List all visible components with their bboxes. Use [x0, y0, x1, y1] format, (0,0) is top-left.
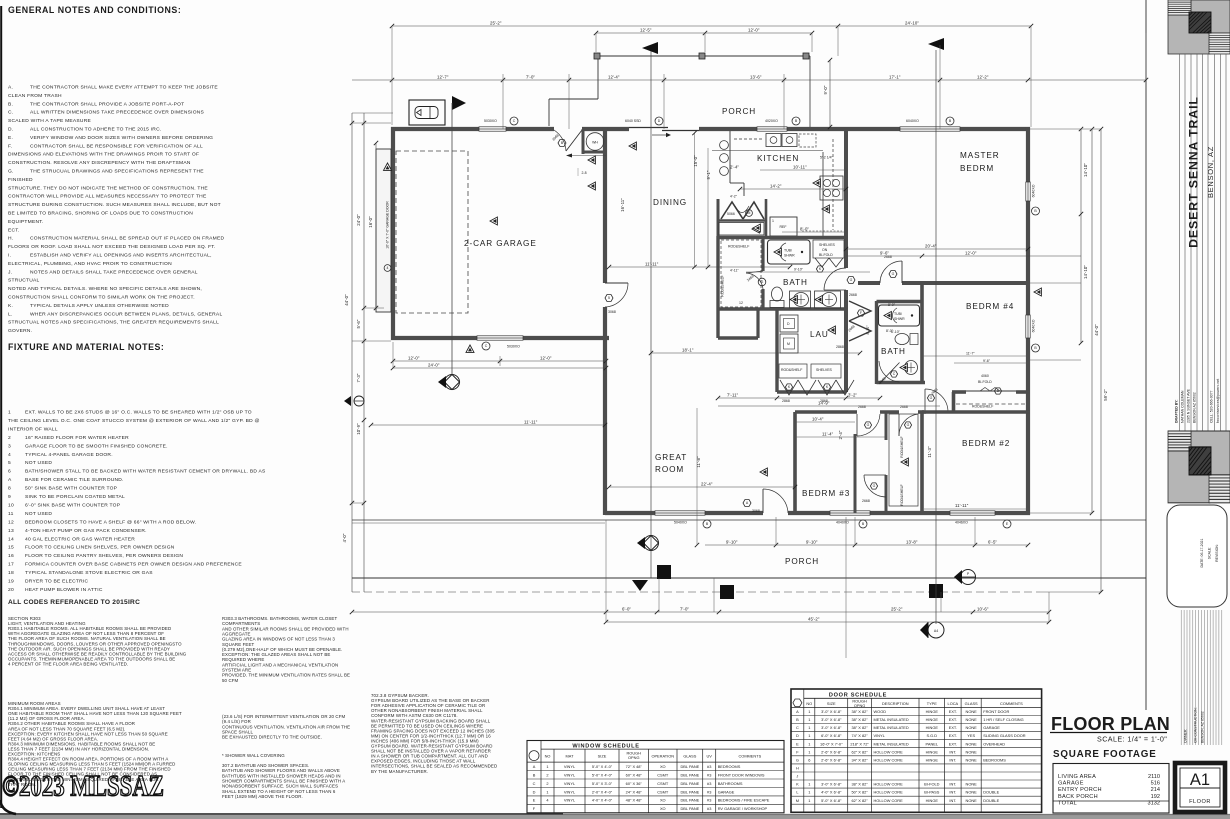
svg-text:INT.: INT. [949, 790, 956, 795]
FLOOR PLAN title [1050, 714, 1170, 744]
dim row y612 [350, 607, 1051, 615]
sliding door 6040 SSD [629, 128, 699, 138]
svg-text:10'-11": 10'-11" [793, 165, 807, 170]
svg-text:INT.: INT. [949, 798, 956, 803]
left extension stubs [352, 113, 393, 503]
dim bedrm3 [795, 417, 886, 438]
shelves closet bifold W [815, 258, 843, 267]
svg-text:34" X 82": 34" X 82" [852, 757, 869, 762]
svg-text:#3: #3 [707, 789, 711, 794]
svg-text:2'-0" X 4'-0": 2'-0" X 4'-0" [592, 789, 613, 794]
svg-text:6040XO: 6040XO [1032, 184, 1036, 197]
svg-text:12'-0": 12'-0" [748, 28, 760, 33]
svg-text:25'-2": 25'-2" [490, 21, 502, 26]
svg-text:VERIFY WINDOW AND DOOR SIZES W: VERIFY WINDOW AND DOOR SIZES WITH OWNERS… [30, 135, 213, 141]
svg-text:DBL PANE: DBL PANE [680, 789, 699, 794]
toilet bath2 [895, 334, 918, 345]
svg-text:ALL CODES REFERANCED TO 2015IR: ALL CODES REFERANCED TO 2015IRC [8, 599, 140, 606]
svg-text:BI-FOLD: BI-FOLD [819, 253, 833, 257]
svg-text:38" X 82": 38" X 82" [852, 709, 869, 714]
svg-text:13: 13 [8, 528, 14, 534]
code notes column 2 [222, 616, 350, 683]
svg-text:SHWR: SHWR [784, 254, 795, 258]
svg-text:FINISHED: FINISHED [8, 177, 33, 183]
svg-text:13'-8": 13'-8" [906, 540, 918, 545]
svg-text:16'-0" X 7'-0": 16'-0" X 7'-0" [820, 741, 843, 746]
svg-text:10'-4": 10'-4" [812, 417, 824, 422]
svg-text:BY THE MANUFACTURER.: BY THE MANUFACTURER. [371, 769, 428, 774]
garage opener legend box [409, 100, 445, 125]
svg-text:DBL PANE: DBL PANE [680, 798, 699, 803]
sheet inner frame line [1145, 0, 1147, 710]
sheet left border [0, 6, 2, 808]
svg-text:FLOOR: FLOOR [1189, 799, 1211, 805]
svg-text:HINGE: HINGE [926, 709, 939, 714]
svg-text:4020XO: 4020XO [765, 119, 778, 123]
svg-text:72" X 48": 72" X 48" [626, 764, 643, 769]
svg-text:EXT.: EXT. [949, 717, 957, 722]
dim stubs y545 [697, 408, 975, 545]
window 5040XO bottom wall [655, 511, 705, 515]
svg-text:LIVING AREA: LIVING AREA [1058, 774, 1096, 780]
svg-text:EXT. WALLS TO BE 2X6 STUDS @: EXT. WALLS TO BE 2X6 STUDS @ 16" O.C. WA… [25, 410, 252, 416]
svg-text:DATE: 06-17-2021: DATE: 06-17-2021 [1200, 538, 1204, 567]
door garage to great room [605, 283, 628, 307]
svg-text:PROVIDED. THE MINIMUM VENTILAT: PROVIDED. THE MINIMUM VENTILATION RATES … [222, 673, 350, 678]
porch beam drop line [809, 56, 811, 127]
master door [880, 261, 902, 283]
svg-text:SHELVES: SHELVES [816, 368, 833, 372]
svg-text:DRYER TO BE ELECTRIC: DRYER TO BE ELECTRIC [25, 579, 88, 585]
washer [780, 334, 798, 353]
svg-text:5'-0" X 4'-0": 5'-0" X 4'-0" [592, 772, 613, 777]
code notes column 1 [8, 616, 187, 666]
svg-text:SQUARE FOOTAGE: SQUARE FOOTAGE [1053, 749, 1157, 760]
svg-text:6'-0": 6'-0" [622, 607, 631, 612]
svg-text:H: H [796, 766, 799, 771]
svg-text:A: A [796, 709, 799, 714]
svg-text:9'-10": 9'-10" [794, 268, 804, 272]
flag triangle at opener box [452, 96, 466, 110]
svg-text:2: 2 [8, 435, 11, 441]
svg-text:14: 14 [8, 536, 14, 542]
right extension stubs [1030, 129, 1101, 592]
svg-text:516: 516 [1151, 781, 1160, 787]
svg-text:BENSON, AZ 85602: BENSON, AZ 85602 [1201, 711, 1205, 743]
svg-text:22'-4": 22'-4" [701, 482, 713, 487]
svg-text:3'-0" X 6'-8": 3'-0" X 6'-8" [821, 782, 842, 787]
svg-text:2285 N SUNSET AVE: 2285 N SUNSET AVE [1187, 388, 1191, 423]
shelves bifold closet [813, 240, 844, 258]
svg-text:ROD&SHELF: ROD&SHELF [900, 436, 904, 457]
svg-text:2110: 2110 [1148, 774, 1160, 780]
stove [820, 176, 843, 200]
svg-text:59'-2": 59'-2" [1103, 389, 1108, 401]
svg-text:INTERIOR OF WALL: INTERIOR OF WALL [8, 426, 58, 432]
svg-text:1: 1 [808, 782, 810, 787]
dim kitchen 14-2 [738, 184, 848, 192]
svg-text:HINGE: HINGE [926, 798, 939, 803]
tub shower bath1 [768, 240, 811, 264]
svg-text:©2023 MLSSAZ: ©2023 MLSSAZ [2, 768, 164, 802]
bar stools dining side [720, 141, 729, 176]
lau closet bifolds [780, 380, 854, 395]
logo top right [1168, 0, 1230, 54]
svg-text:20: 20 [8, 587, 14, 593]
svg-text:OWNER:: OWNER: [1184, 729, 1188, 743]
svg-text:GLASS: GLASS [683, 754, 696, 759]
extension lines top [392, 27, 1146, 129]
svg-text:DBL PANE: DBL PANE [680, 806, 699, 811]
svg-text:HOLLOW CORE: HOLLOW CORE [874, 798, 904, 803]
svg-text:VINYL: VINYL [564, 798, 576, 803]
svg-text:16: 16 [8, 553, 14, 559]
svg-text:NOTES AND DETAILS SHALL TAKE P: NOTES AND DETAILS SHALL TAKE PRECEDENCE … [30, 269, 198, 275]
svg-text:J.: J. [8, 269, 12, 275]
dim line top 25-2 / 24-10 [390, 21, 1033, 29]
svg-text:38" X 82": 38" X 82" [852, 782, 869, 787]
svg-text:COMMENTS: COMMENTS [738, 754, 761, 759]
svg-text:2: 2 [546, 781, 548, 786]
svg-text:11: 11 [8, 511, 14, 517]
svg-text:5'-0" X 6'-8": 5'-0" X 6'-8" [821, 798, 842, 803]
svg-text:BEDRM #2: BEDRM #2 [962, 439, 1010, 448]
water heater closet [583, 129, 605, 154]
svg-text:#3: #3 [707, 772, 711, 777]
door bedrm2 hall [899, 414, 918, 436]
svg-text:4'-0": 4'-0" [342, 533, 347, 542]
svg-text:#3: #3 [707, 781, 711, 786]
svg-text:F: F [860, 311, 862, 315]
svg-text:BATHROOMS: BATHROOMS [718, 781, 743, 786]
svg-text:10'-6": 10'-6" [977, 607, 989, 612]
svg-text:1: 1 [546, 789, 548, 794]
svg-text:J: J [796, 774, 798, 779]
svg-text:11'-11": 11'-11" [955, 503, 969, 508]
svg-text:8'-0": 8'-0" [888, 303, 896, 307]
window 6040XO east wall lower [1026, 315, 1030, 338]
refrigerator [770, 217, 842, 236]
svg-text:18'-1": 18'-1" [682, 348, 694, 353]
porch post top 1 [594, 53, 600, 59]
general notes paragraph A-L [8, 85, 224, 335]
dim master 20-4 [844, 244, 1030, 252]
wall: garage right / house west [603, 127, 607, 515]
bottom porch roof line [352, 578, 1146, 592]
svg-text:PORCH: PORCH [722, 107, 756, 116]
svg-text:OVERHEAD: OVERHEAD [983, 741, 1005, 746]
svg-text:2668: 2668 [849, 293, 857, 297]
svg-text:5040XO: 5040XO [674, 521, 687, 525]
fixture notes list 1-20 [8, 410, 266, 593]
svg-text:THE STRUCUAL DRAWINGS AND SPEC: THE STRUCUAL DRAWINGS AND SPECIFICATIONS… [30, 169, 204, 175]
svg-text:CONSTRUCTION SHALL CONFORM TO: CONSTRUCTION SHALL CONFORM TO SIMILAR WO… [8, 295, 195, 301]
svg-text:CSMT: CSMT [657, 772, 669, 777]
porch post bottom 1 [657, 565, 671, 579]
svg-text:OPNG: OPNG [854, 703, 865, 708]
svg-text:NONE: NONE [966, 798, 978, 803]
svg-text:12'-7": 12'-7" [437, 75, 449, 80]
svg-text:UV: UV [706, 754, 712, 759]
svg-text:HINGE: HINGE [926, 757, 939, 762]
entry recess outline [549, 58, 598, 126]
svg-text:H.: H. [8, 236, 13, 242]
code notes column 3 [371, 693, 497, 774]
wall: house east [1026, 127, 1030, 515]
svg-text:DESCRIPTION: DESCRIPTION [882, 701, 909, 706]
svg-text:5'-2 1/4": 5'-2 1/4" [820, 156, 834, 160]
svg-text:WH: WH [592, 141, 598, 145]
svg-text:DBL PANE: DBL PANE [680, 781, 699, 786]
svg-text:FLOOR PLAN: FLOOR PLAN [1051, 714, 1170, 734]
svg-text:OPERATION: OPERATION [651, 754, 674, 759]
hose bib marker left porch [344, 396, 364, 406]
dim hall rows [716, 393, 940, 407]
svg-text:5'-6": 5'-6" [356, 319, 361, 328]
svg-text:44'-0": 44'-0" [1094, 324, 1099, 336]
svg-text:BI-PASS: BI-PASS [924, 790, 939, 795]
svg-text:DRAFTED BY:: DRAFTED BY: [1175, 400, 1179, 423]
svg-text:45'-2": 45'-2" [808, 617, 820, 622]
svg-text:S.G.D: S.G.D [927, 733, 938, 738]
svg-text:7'-0": 7'-0" [526, 75, 535, 80]
svg-text:ROOM: ROOM [655, 465, 684, 474]
dishwasher [799, 134, 816, 147]
small dims bath [888, 303, 901, 334]
svg-text:ENTRY PORCH: ENTRY PORCH [1058, 787, 1102, 793]
svg-text:4'-0" X 6'-8": 4'-0" X 6'-8" [821, 790, 842, 795]
svg-text:2-8: 2-8 [581, 171, 586, 175]
logo middle right [1168, 431, 1230, 503]
closet door bath1 [746, 271, 763, 289]
svg-text:74" X 82": 74" X 82" [852, 733, 869, 738]
svg-text:G: G [907, 423, 910, 427]
svg-text:BACK PORCH: BACK PORCH [1058, 794, 1098, 800]
door 3068 bottom wall [763, 489, 788, 513]
svg-text:1: 1 [808, 709, 810, 714]
bedrm4 west wall [920, 283, 924, 384]
keynote diamond patio [438, 375, 460, 390]
svg-text:INT.: INT. [949, 782, 956, 787]
svg-text:D: D [533, 789, 536, 794]
svg-text:5030XO: 5030XO [484, 119, 497, 123]
svg-text:MASTER: MASTER [960, 151, 1000, 160]
svg-text:HINGE: HINGE [926, 717, 939, 722]
wall: garage top [391, 127, 629, 131]
svg-text:THE CEILING LEVEL O.C. ONE C: THE CEILING LEVEL O.C. ONE COAT STUCCO S… [8, 418, 260, 424]
closet rodshelf boxes bedrm23 [889, 414, 918, 506]
svg-text:4'-11": 4'-11" [730, 269, 739, 273]
svg-text:2-CAR GARAGE: 2-CAR GARAGE [464, 239, 537, 248]
svg-text:9'-1": 9'-1" [706, 170, 711, 179]
svg-text:4'-0" X 4'-0": 4'-0" X 4'-0" [592, 798, 613, 803]
svg-text:44'-0": 44'-0" [344, 294, 349, 306]
svg-text:5'-0" X 3'-0": 5'-0" X 3'-0" [592, 781, 613, 786]
svg-text:2: 2 [546, 772, 548, 777]
svg-text:15: 15 [8, 545, 14, 551]
svg-text:GARAGE FLOOR TO BE SMOOTH FINI: GARAGE FLOOR TO BE SMOOTH FINISHED CONCR… [25, 443, 168, 449]
svg-text:INT.: INT. [949, 749, 956, 754]
svg-text:K.: K. [8, 303, 13, 309]
svg-text:THE CONTRACTOR SHALL PROVIDE A: THE CONTRACTOR SHALL PROVIDE A JOBSITE P… [30, 101, 184, 107]
svg-text:11'-11": 11'-11" [524, 420, 538, 425]
svg-text:ROD&SHELF: ROD&SHELF [972, 405, 993, 409]
svg-text:60" X 36": 60" X 36" [626, 781, 643, 786]
svg-text:4060: 4060 [981, 374, 989, 378]
svg-text:19: 19 [8, 579, 14, 585]
sheet bottom shadow band [0, 800, 1230, 819]
svg-text:G: G [796, 757, 799, 762]
svg-text:OPNG: OPNG [628, 755, 639, 760]
porch post top 3 [803, 53, 809, 59]
svg-text:ESTABLISH AND VERIFY ALL OPENI: ESTABLISH AND VERIFY ALL OPENINGS AND IN… [30, 253, 212, 259]
svg-text:HEAT PUMP BLOWER IN ATTIC: HEAT PUMP BLOWER IN ATTIC [25, 587, 103, 593]
porch post bottom 2 [720, 585, 734, 599]
dim patio 11-11 [369, 420, 607, 428]
svg-text:G: G [761, 280, 764, 284]
svg-text:16'-11": 16'-11" [620, 198, 625, 212]
svg-text:FLOOR TO CEILING LINEN SHELVE: FLOOR TO CEILING LINEN SHELVES, PER OWNE… [25, 545, 175, 551]
svg-text:24'-0": 24'-0" [428, 363, 440, 368]
svg-text:60" X 48": 60" X 48" [626, 772, 643, 777]
svg-text:4040XO: 4040XO [836, 521, 849, 525]
svg-text:A4: A4 [934, 629, 938, 633]
svg-text:8: 8 [8, 486, 11, 492]
svg-text:D: D [796, 733, 799, 738]
vanity sinks bath1 [790, 291, 811, 308]
svg-text:M: M [787, 342, 790, 346]
svg-text:TYPICAL DETAILS APPLY UNLESS O: TYPICAL DETAILS APPLY UNLESS OTHERWISE N… [30, 303, 169, 309]
svg-text:XO: XO [660, 806, 666, 811]
misc keynote triangles [629, 142, 636, 150]
svg-text:38" X 82": 38" X 82" [852, 725, 869, 730]
dim great room 18-1 [649, 348, 862, 356]
bath2 walls [877, 301, 926, 384]
svg-text:2668: 2668 [884, 255, 892, 259]
svg-text:ROD&SHELF: ROD&SHELF [728, 245, 749, 249]
svg-text:NOTED AND TYPICAL DETAILS. WH: NOTED AND TYPICAL DETAILS. WHERE NO SPEC… [8, 286, 202, 292]
kitchen top counter [712, 150, 823, 152]
svg-text:FLOORS OR ROOF. LOAD SHALL NO: FLOORS OR ROOF. LOAD SHALL NOT EXCEED TH… [8, 244, 216, 250]
owner block [1181, 610, 1222, 745]
svg-text:6040XO: 6040XO [1032, 319, 1036, 332]
svg-text:5: 5 [608, 296, 610, 300]
svg-text:METAL INSULATED: METAL INSULATED [874, 725, 909, 730]
bedrm2 top wall [922, 410, 1030, 414]
svg-text:BEDROOMS: BEDROOMS [718, 764, 741, 769]
dim line 12-5 / 12-0 [594, 28, 814, 36]
bedrm3 west wall [793, 412, 797, 513]
svg-text:ROD&SHELF: ROD&SHELF [900, 484, 904, 505]
svg-text:C: C [796, 725, 799, 730]
left dim line 44-0 [342, 113, 354, 592]
bedrm4 door [925, 389, 948, 414]
svg-text:SCALE:: SCALE: [1208, 547, 1212, 559]
svg-text:WHER ANY DISCREPANCIES OCCUR B: WHER ANY DISCREPANCIES OCCUR BETWEEN PLA… [30, 311, 222, 317]
svg-text:HOLLOW CORE: HOLLOW CORE [874, 782, 904, 787]
svg-text:VINYL: VINYL [564, 772, 576, 777]
svg-text:1: 1 [808, 717, 810, 722]
svg-text:HINGE: HINGE [926, 725, 939, 730]
right dim 59-2 [1099, 127, 1108, 594]
keynote diamond porch [637, 536, 659, 551]
dim master 9-6 12-0 [846, 251, 1081, 259]
svg-text:1: 1 [808, 798, 810, 803]
svg-text:50" X 82": 50" X 82" [852, 790, 869, 795]
svg-text:#3: #3 [707, 806, 711, 811]
svg-text:218" X 72": 218" X 72" [850, 741, 869, 746]
hall corridor linen closet bifolds [849, 301, 871, 341]
top porch beam [597, 55, 810, 57]
svg-text:CONTRACTOR WILL PROVIDE ALL ME: CONTRACTOR WILL PROVIDE ALL MEASURES NEC… [8, 194, 207, 200]
door bath1 [824, 268, 846, 290]
svg-text:NONE: NONE [966, 749, 978, 754]
svg-text:11'-11": 11'-11" [645, 262, 659, 267]
dim bedrm4 [922, 352, 1028, 364]
svg-text:NO: NO [806, 701, 812, 706]
svg-text:ROD&SHELF: ROD&SHELF [721, 275, 725, 296]
svg-text:NO: NO [545, 754, 551, 759]
keynote triangle pantry [753, 224, 760, 232]
garage door band [376, 149, 391, 312]
svg-text:2668: 2668 [900, 405, 908, 409]
svg-text:SINK TO BE PORCLAIN COATED MET: SINK TO BE PORCLAIN COATED METAL [25, 494, 125, 500]
svg-text:FRONT DOOR: FRONT DOOR [983, 709, 1009, 714]
window 6040XO top wall [900, 127, 960, 131]
svg-text:NONE: NONE [966, 790, 978, 795]
svg-text:CSMT: CSMT [657, 781, 669, 786]
svg-text:214: 214 [1151, 787, 1160, 793]
svg-text:REF: REF [780, 225, 787, 229]
dryer [780, 315, 798, 332]
wall: garage left [391, 127, 395, 340]
svg-text:B.: B. [8, 101, 13, 107]
svg-text:NONE: NONE [966, 725, 978, 730]
svg-text:12'-5": 12'-5" [640, 28, 652, 33]
svg-text:8'-10": 8'-10" [866, 325, 870, 335]
svg-text:CM CONSTRUCTION:: CM CONSTRUCTION: [1194, 707, 1198, 743]
svg-text:F.: F. [8, 143, 12, 149]
svg-text:38" X 82": 38" X 82" [852, 717, 869, 722]
svg-text:4: 4 [8, 452, 11, 458]
svg-text:TYPICAL STANDALONE STOVE ELECT: TYPICAL STANDALONE STOVE ELECTRIC OR GAS [25, 570, 153, 576]
svg-text:EXT.: EXT. [949, 709, 957, 714]
svg-text:12'-4": 12'-4" [608, 75, 620, 80]
svg-text:50 CFM: 50 CFM [222, 678, 239, 683]
svg-text:10'-9": 10'-9" [356, 423, 361, 435]
bedrm3 top wall [795, 410, 924, 414]
svg-text:METAL INSULATED: METAL INSULATED [874, 717, 909, 722]
svg-text:TUB/: TUB/ [894, 312, 902, 316]
svg-text:FORMICA COUNTER OVER BASE CABI: FORMICA COUNTER OVER BASE CABINETS PER O… [25, 562, 242, 568]
svg-text:16'-0": 16'-0" [368, 216, 373, 228]
svg-text:CELL: 520-666-0077: CELL: 520-666-0077 [1210, 390, 1214, 423]
sheet number box A1 [1175, 763, 1225, 812]
title block ruled lines upper [1180, 54, 1227, 432]
svg-text:BEDRM #3: BEDRM #3 [802, 489, 850, 498]
bedrm4 closet front stubs [952, 392, 1027, 413]
keynote circle porch right [954, 570, 976, 585]
svg-text:7'-3": 7'-3" [356, 373, 361, 382]
svg-text:LAU: LAU [810, 330, 829, 339]
svg-text:1: 1 [808, 790, 810, 795]
svg-text:62" X 82": 62" X 82" [852, 749, 869, 754]
svg-text:DBL PANE: DBL PANE [680, 772, 699, 777]
svg-text:2'-6" X 6'-8": 2'-6" X 6'-8" [821, 757, 842, 762]
svg-text:BATH: BATH [783, 278, 808, 287]
lau closet rodshelf boxes [779, 364, 841, 378]
section line B vertical [935, 50, 937, 624]
